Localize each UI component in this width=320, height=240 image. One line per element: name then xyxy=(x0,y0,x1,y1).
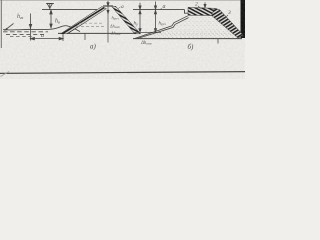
faint scratch bottom-left corner xyxy=(1,72,10,77)
groundwater dashed line 1 xyxy=(3,31,48,33)
groundwater dashed line 3 xyxy=(10,36,34,38)
right slope hatched band xyxy=(111,6,140,34)
crest centre arrow xyxy=(204,2,206,7)
dimension h_v vertical arrow xyxy=(50,10,52,28)
base tick left xyxy=(84,33,86,40)
shoulder step xyxy=(185,10,189,14)
right black bar xyxy=(241,0,246,38)
base tick xyxy=(217,39,219,44)
left slope hatched band xyxy=(61,7,107,34)
bottom rule xyxy=(0,72,245,74)
horizontal dimension a xyxy=(31,34,64,41)
slope revetment hatched band xyxy=(212,8,244,38)
crest hatched block xyxy=(188,7,216,15)
dimension h_ruch at x=155 xyxy=(154,2,156,33)
leader pointer 1 (left slope mark) xyxy=(5,24,14,31)
top edge streak xyxy=(0,0,245,2)
embankment base line (diagram a) xyxy=(58,32,140,34)
design grade line (right diagram) xyxy=(133,9,185,11)
paper background xyxy=(0,0,245,79)
dimension h_gv vertical line xyxy=(29,14,31,41)
crest line xyxy=(103,5,113,7)
dotted fill of embankment body xyxy=(140,17,237,39)
dimension h_u at x=140 xyxy=(139,3,141,32)
internal dashed groundwater lines inside embankment xyxy=(79,22,104,24)
ground level short line (right diagram) xyxy=(135,31,161,33)
groundwater dashed line 2 xyxy=(6,33,45,35)
water level symbol (nabla) xyxy=(46,3,54,9)
base line (right diagram) xyxy=(133,38,242,40)
natural ground wavy line xyxy=(3,26,80,32)
left border line xyxy=(0,0,2,48)
design grade line (left) xyxy=(42,9,97,11)
left slope double line with berm xyxy=(135,16,189,39)
embankment centre line with arrow xyxy=(107,1,109,43)
